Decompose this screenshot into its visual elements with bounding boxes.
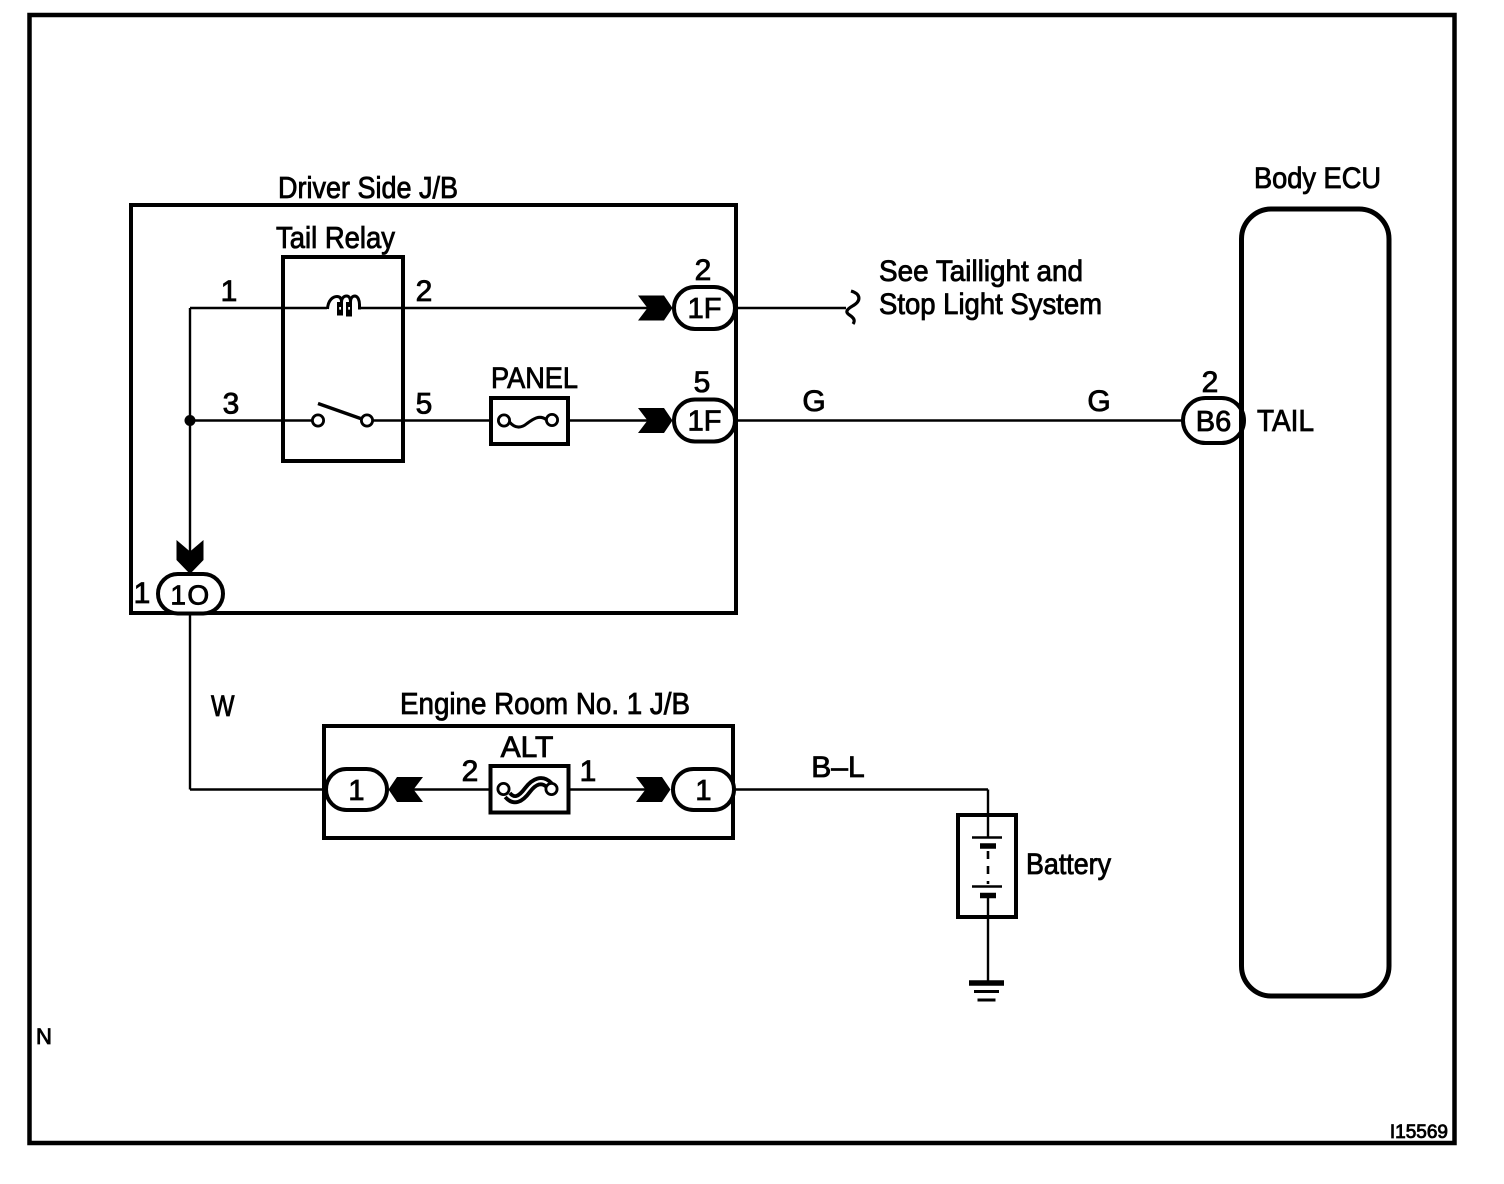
fuse PANEL [491,398,568,444]
ground [969,983,1004,1000]
wire: PANEL fuse to 1F pin5 arrow [568,419,652,421]
svg-text:2: 2 [695,254,712,287]
battery [958,815,1016,917]
svg-text:1: 1 [695,775,711,807]
svg-text:ALT: ALT [501,731,554,764]
wire: switch row from junction to switch [190,419,313,421]
svg-text:N: N [36,1024,52,1049]
svg-text:Engine Room No. 1 J/B: Engine Room No. 1 J/B [400,686,690,721]
connector 1F pin 2 oval [674,287,735,329]
wire break squiggle [847,291,859,324]
svg-text:Driver Side J/B: Driver Side J/B [278,170,458,205]
wire W: 1O down and across to Engine Room J/B [189,614,191,790]
connector arrow into 1F pin 5 [638,408,673,433]
svg-text:1F: 1F [688,406,722,438]
svg-text:Body ECU: Body ECU [1254,162,1381,195]
svg-text:5: 5 [416,388,433,421]
junction dot at node [185,415,196,426]
connector 1F pin 5 oval [674,400,735,442]
svg-text:G: G [802,385,825,418]
svg-text:Tail Relay: Tail Relay [276,220,395,255]
wire: down into battery [987,790,989,839]
relay box Tail Relay [283,257,403,461]
connector arrow into right 1 oval (pointing right) [636,777,671,802]
fusible link ALT [491,766,569,813]
svg-text:W: W [211,690,235,723]
svg-text:1: 1 [221,275,238,308]
wire: coil to 1F pin2 arrow [360,307,653,309]
svg-text:See Taillight and: See Taillight and [879,255,1083,288]
svg-text:5: 5 [694,366,711,399]
wire: coil row horizontal, pin1 to coil [190,307,327,309]
wire: arrow to ALT fuse [413,788,498,790]
svg-text:1: 1 [348,775,364,807]
connector arrow into 1F pin 2 [638,296,673,321]
svg-text:1: 1 [580,755,597,788]
svg-text:B6: B6 [1196,406,1231,438]
connector B6 oval [1183,398,1244,443]
connector 1 oval (left, Engine Room) [326,769,387,810]
relay switch [312,404,372,427]
junction block box Driver Side J/B [131,205,736,613]
Body ECU box [1242,209,1390,996]
svg-text:1F: 1F [688,293,722,325]
svg-text:Stop Light System: Stop Light System [879,288,1102,321]
junction block box Engine Room No. 1 J/B [324,726,733,838]
connector 1O oval [158,574,223,614]
svg-text:3: 3 [223,388,240,421]
wire G: 1F pin5 to B6 [735,419,1183,421]
wire: ALT fuse to right arrow [569,788,651,790]
svg-text:G: G [1087,385,1110,418]
svg-text:I15569: I15569 [1390,1122,1448,1143]
wire: left vertical from coil row down to down-arrow [189,308,191,553]
svg-text:B–L: B–L [811,751,864,784]
svg-text:2: 2 [416,275,433,308]
svg-text:TAIL: TAIL [1257,403,1314,438]
connector arrow out of left 1 oval (pointing left) [389,777,424,802]
svg-text:2: 2 [462,755,479,788]
svg-text:Battery: Battery [1026,848,1111,881]
wire: switch to PANEL fuse [373,419,499,421]
svg-text:PANEL: PANEL [491,362,578,395]
connector arrow down into 1O [177,540,204,574]
svg-text:2: 2 [1202,366,1219,399]
wire B-L: right 1 oval to battery [734,788,988,790]
svg-text:1: 1 [134,577,151,610]
wire: battery to ground [987,898,989,983]
relay coil [328,296,360,317]
connector 1 oval (right, Engine Room) [673,769,734,810]
svg-text:1O: 1O [170,580,210,611]
wire: 1F pin2 to break symbol [735,307,846,309]
